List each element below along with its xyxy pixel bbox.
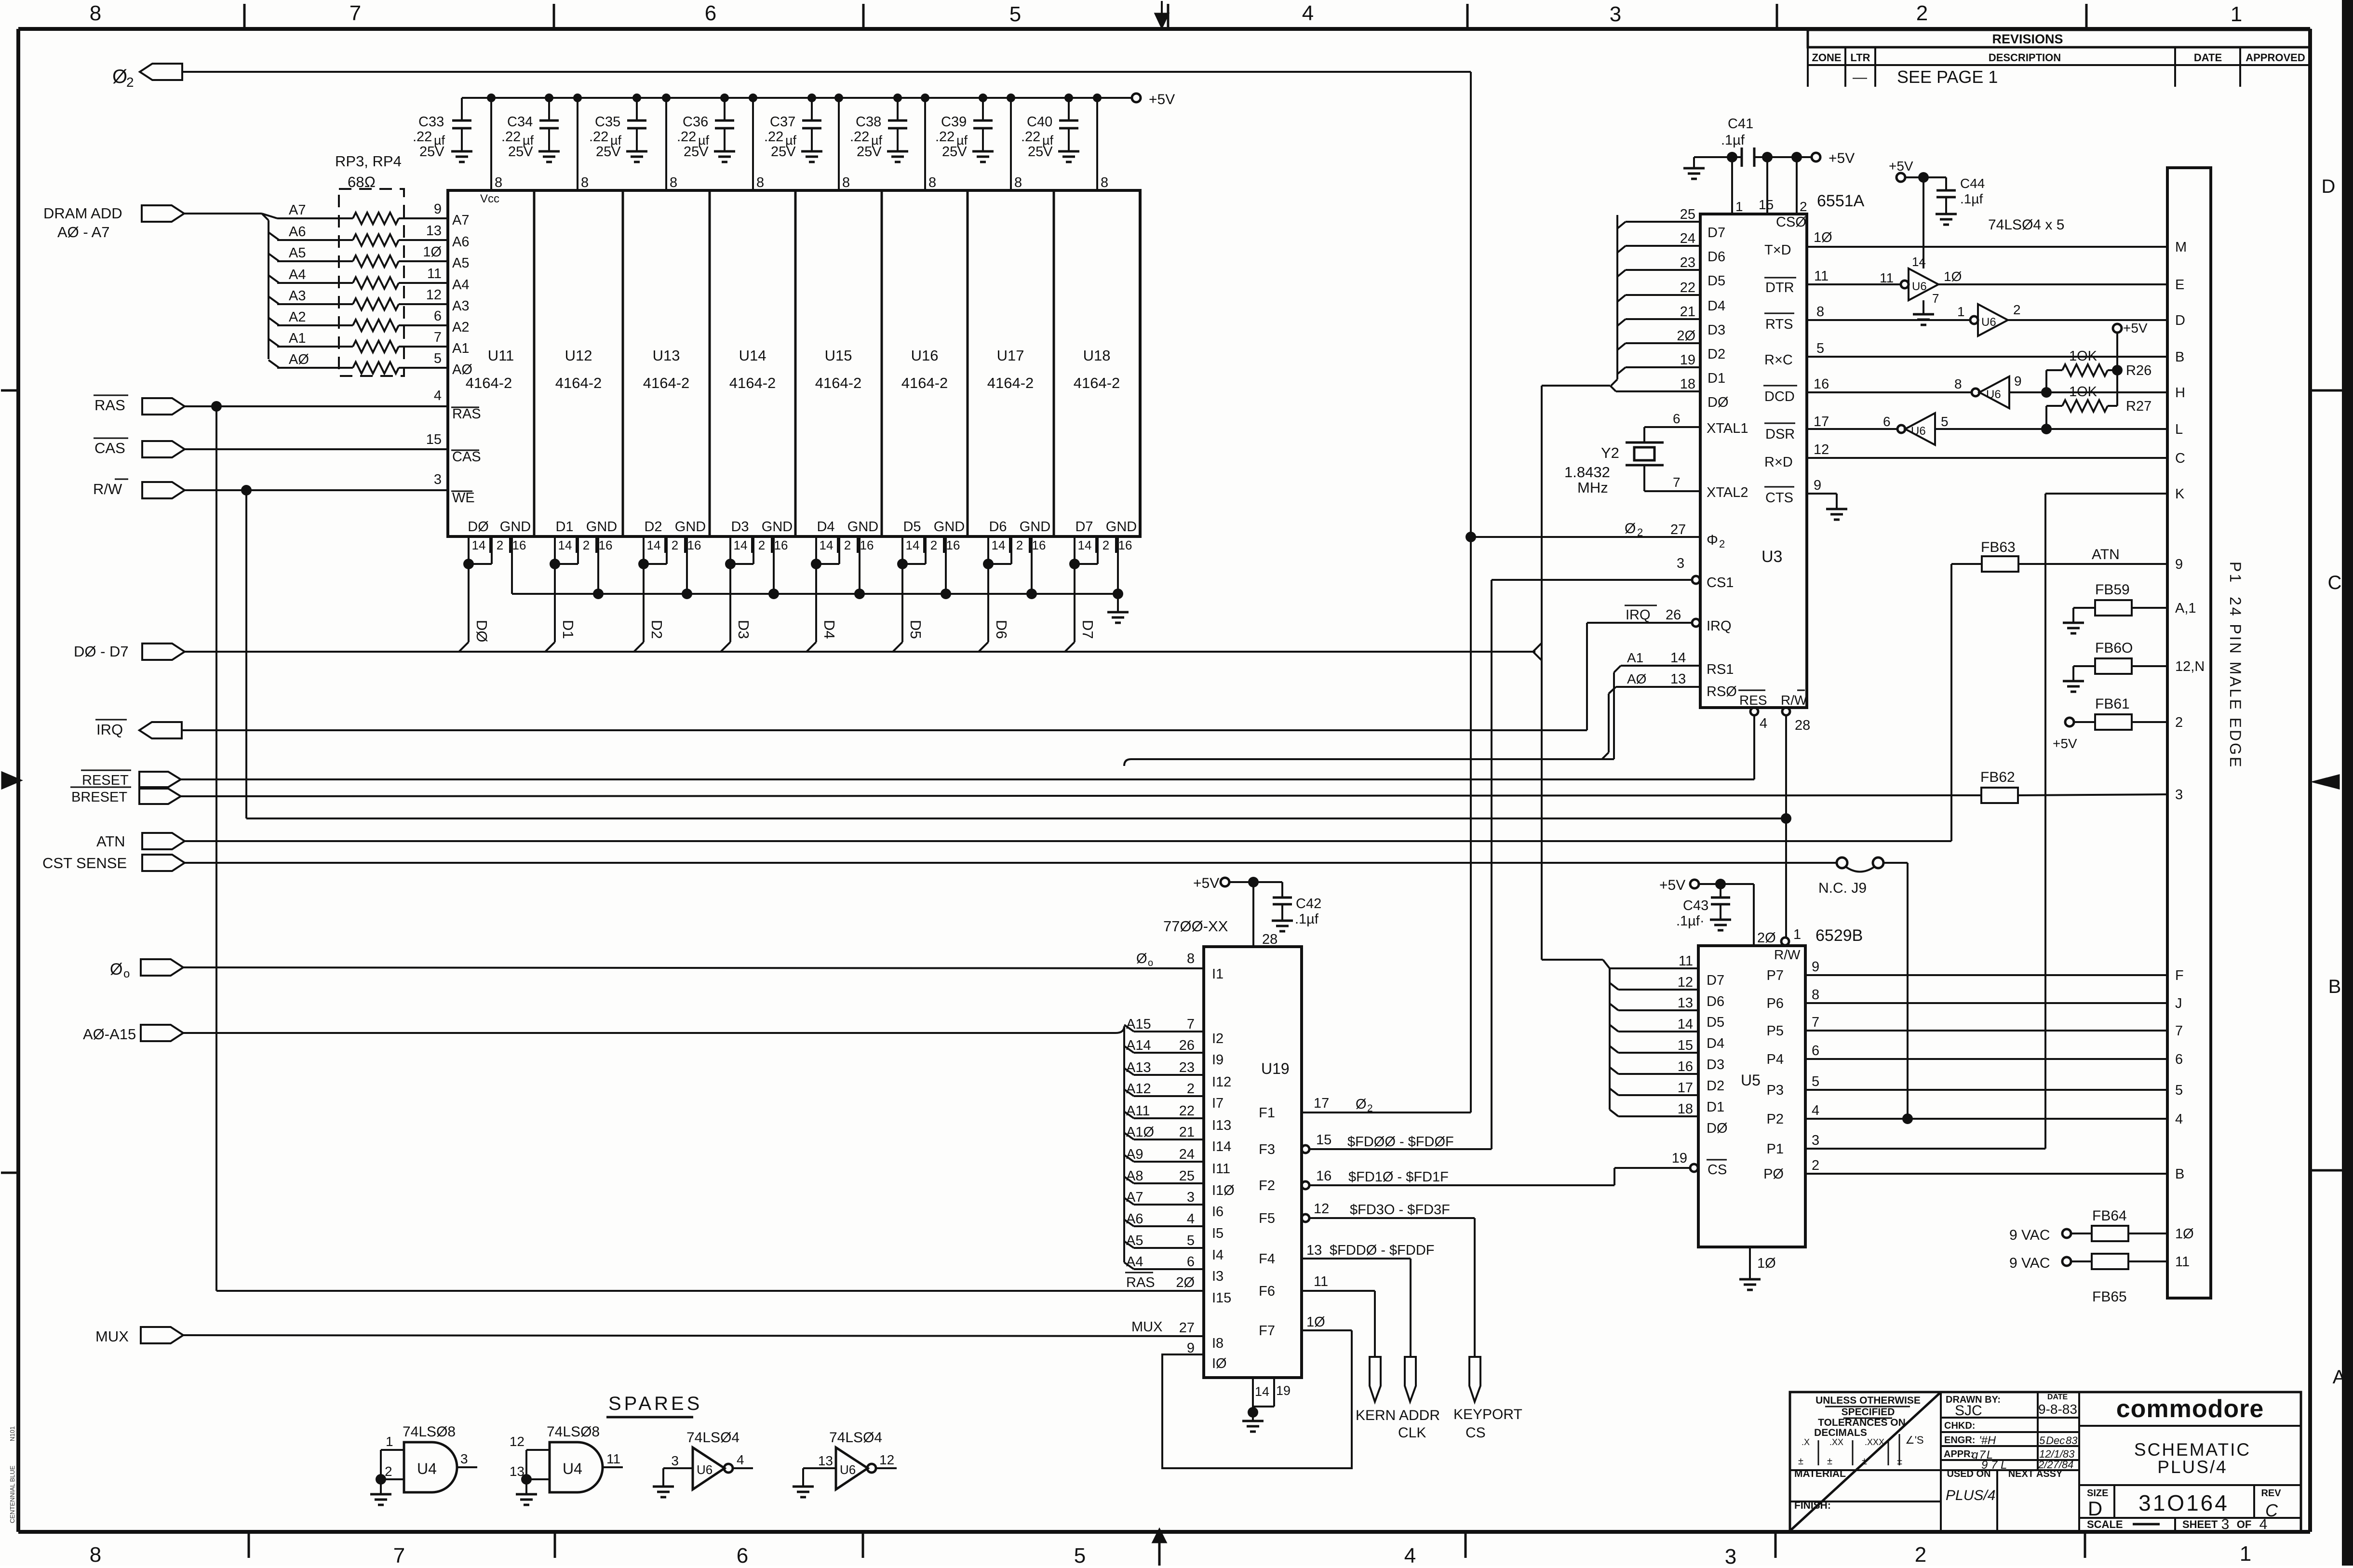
svg-text:C44: C44 [1960, 176, 1985, 191]
U5 pin 10 ground [1750, 1247, 1776, 1278]
resistor pack RP3,RP4 label [335, 153, 402, 190]
svg-text:P7: P7 [1767, 968, 1784, 983]
zone tick marks right border [2310, 390, 2342, 1170]
svg-text:Ø: Ø [1356, 1097, 1367, 1112]
U5 port pin P0 [1763, 1158, 2167, 1182]
svg-text:.X: .X [1802, 1437, 1810, 1447]
ferrite bead FB64 to edge 10 [2092, 1208, 2167, 1241]
svg-text:15: 15 [1316, 1132, 1331, 1148]
svg-text:2: 2 [1916, 1, 1928, 25]
inverter U6 DCD 9-8 [1954, 374, 2022, 408]
svg-text:8: 8 [1816, 304, 1824, 320]
svg-text:1: 1 [1735, 199, 1743, 214]
wire data D6 drop to bus [979, 564, 1010, 652]
svg-text:A14: A14 [1126, 1038, 1151, 1053]
U3 TxD pin 10 wire to edge M [1764, 230, 2167, 258]
connector P1 24 pin male edge outline [2167, 168, 2211, 1298]
svg-text:I13: I13 [1212, 1118, 1231, 1133]
svg-text:.22: .22 [1021, 129, 1040, 145]
chip divider U12/U13 [622, 190, 624, 536]
DRAM U13 Vcc pin 8 stub [662, 94, 677, 190]
svg-text:AØ: AØ [452, 362, 472, 377]
net flag CAS input [94, 438, 185, 457]
svg-text:27: 27 [1179, 1320, 1195, 1336]
svg-text:2Ø: 2Ø [1176, 1275, 1195, 1290]
inverter U6 74LS04 spare 1 [663, 1430, 753, 1489]
svg-text:1Ø: 1Ø [1944, 269, 1962, 284]
svg-text:U6: U6 [697, 1462, 713, 1477]
svg-text:D1: D1 [1708, 371, 1725, 386]
svg-text:D3: D3 [735, 620, 752, 639]
svg-text:3: 3 [1610, 2, 1621, 26]
svg-text:MATERIAL: MATERIAL [1794, 1468, 1846, 1479]
svg-text:+5V: +5V [1829, 150, 1855, 166]
svg-text:AØ-A15: AØ-A15 [83, 1026, 136, 1043]
svg-text:CAS: CAS [94, 440, 125, 456]
svg-text:C: C [2175, 451, 2185, 466]
U5 port pin P2 [1767, 1103, 2167, 1127]
svg-text:D1: D1 [555, 519, 573, 535]
title SCHEMATIC PLUS/4 [2134, 1440, 2251, 1477]
svg-text:1Ø: 1Ø [1757, 1256, 1776, 1271]
svg-text:3: 3 [1725, 1545, 1736, 1566]
svg-text:±: ± [1897, 1456, 1902, 1467]
svg-text:D2: D2 [644, 519, 662, 535]
svg-text:J: J [2175, 996, 2182, 1011]
svg-text:RSØ: RSØ [1707, 684, 1737, 699]
svg-text:74LSØ8: 74LSØ8 [403, 1424, 456, 1440]
svg-text:D6: D6 [993, 620, 1010, 639]
DRAM U14 ground pin 16 stub [768, 536, 779, 599]
svg-text:.XX: .XX [1829, 1437, 1843, 1447]
capacitor C41 .1uf and +5V rail above U3 [1683, 116, 1812, 179]
svg-text:D5: D5 [907, 620, 924, 639]
svg-text:14: 14 [906, 538, 920, 552]
U19 input pin I11 A9 [1124, 1147, 1230, 1177]
svg-text:9: 9 [1812, 959, 1819, 975]
DRAM U16 ground pin 16 stub [941, 536, 951, 599]
svg-text:R27: R27 [2126, 399, 2151, 414]
svg-text:I12: I12 [1212, 1074, 1231, 1090]
capacitor C39 .22uf 25V [935, 94, 994, 162]
svg-text:U19: U19 [1261, 1060, 1290, 1077]
svg-text:A6: A6 [1126, 1211, 1143, 1227]
svg-text:6: 6 [1187, 1254, 1195, 1270]
connector P1 pin 9 [2175, 557, 2183, 572]
svg-text:E: E [2175, 277, 2184, 293]
svg-text:U16: U16 [911, 347, 939, 364]
svg-text:4: 4 [1302, 1, 1314, 25]
ferrite bead FB63 / ATN to edge 9 [1951, 539, 2167, 572]
svg-text:15: 15 [1759, 197, 1774, 212]
svg-text:U12: U12 [565, 347, 592, 364]
svg-text:C40: C40 [1027, 114, 1052, 130]
svg-text:25V: 25V [771, 144, 796, 160]
svg-text:28: 28 [1795, 718, 1810, 733]
U19 input pin I2 A15 [1124, 1017, 1224, 1046]
svg-text:+5V: +5V [1149, 92, 1175, 107]
svg-text:CTS: CTS [1765, 490, 1793, 506]
fold marker arrow right border [2313, 775, 2339, 789]
chip divider U14/U15 [794, 190, 797, 536]
svg-text:7: 7 [1187, 1017, 1195, 1032]
svg-text:A11: A11 [1126, 1103, 1150, 1119]
svg-text:12: 12 [510, 1434, 524, 1449]
svg-text:16: 16 [860, 538, 874, 552]
svg-text:U6: U6 [1911, 425, 1926, 438]
DRAM U17 labels [987, 347, 1034, 391]
DRAM U12 Vcc pin 8 stub [573, 94, 589, 190]
svg-text:14: 14 [647, 538, 661, 552]
svg-text:IØ: IØ [1212, 1356, 1227, 1371]
svg-text:2: 2 [385, 1464, 392, 1479]
svg-text:4164-2: 4164-2 [643, 375, 690, 391]
connector P1 pin A,1 [2175, 601, 2196, 616]
svg-text:U11: U11 [488, 347, 514, 364]
AND gate U4 74LS08 spare 1 [376, 1424, 477, 1493]
svg-text:KERN: KERN [1356, 1407, 1396, 1423]
connector P1 label [2227, 562, 2244, 769]
svg-text:±: ± [1827, 1456, 1832, 1467]
terminal 9 VAC upper [2009, 1227, 2091, 1243]
svg-text:6: 6 [737, 1544, 748, 1566]
capacitor C40 .22uf 25V [1021, 94, 1079, 162]
svg-text:D3: D3 [1708, 322, 1725, 338]
svg-text:D7: D7 [1075, 519, 1093, 535]
wire J9 to U5 P2 [1882, 863, 1913, 1124]
U19 input pin I4 A5 [1124, 1233, 1224, 1263]
svg-text:2: 2 [1016, 538, 1023, 552]
svg-text:17: 17 [1678, 1080, 1693, 1096]
svg-text:.1µf: .1µf [1295, 911, 1319, 927]
ground CTS [1826, 509, 1847, 520]
svg-text:22: 22 [1179, 1103, 1195, 1119]
U5 port pin P5 [1767, 1015, 2167, 1039]
svg-text:A5: A5 [1126, 1233, 1143, 1248]
svg-text:A1: A1 [1627, 650, 1643, 665]
wire U6 pin14 to +5V [1918, 172, 1929, 268]
svg-text:A2: A2 [452, 320, 469, 335]
svg-text:MUX: MUX [1131, 1319, 1162, 1335]
U19 input pin I10 A8 [1124, 1168, 1235, 1198]
DRAM U11 WE pin [426, 432, 475, 506]
svg-text:RESET: RESET [82, 773, 129, 788]
svg-text:D4: D4 [1707, 1036, 1724, 1051]
DRAM U16 data pins 14/2 tie [897, 536, 926, 569]
resistor R27 10K pullup [2046, 384, 2151, 429]
connector P1 pin B [2175, 349, 2184, 365]
svg-text:13: 13 [1670, 671, 1686, 687]
wire R/W to DRAM WE [185, 485, 448, 496]
svg-text:6529B: 6529B [1815, 926, 1863, 945]
net flag MUX input [95, 1327, 183, 1345]
ground U5 [1739, 1279, 1761, 1290]
U19 output F5 $FD30-$FD3F [1259, 1201, 1475, 1226]
svg-text:2Ø: 2Ø [1757, 930, 1776, 946]
svg-text:4164-2: 4164-2 [1074, 375, 1120, 391]
svg-text:SCALE: SCALE [2087, 1518, 2123, 1530]
svg-text:23: 23 [1179, 1060, 1195, 1075]
DRAM U11 labels [466, 192, 514, 391]
svg-text:R/W: R/W [1781, 693, 1807, 708]
U3 DSR pin 17 [1764, 414, 1897, 442]
svg-text:D2: D2 [1707, 1078, 1724, 1094]
DRAM U15 ground pin 16 stub [854, 536, 865, 599]
wire BRESET to FB62 [181, 795, 1982, 796]
svg-text:D6: D6 [1707, 994, 1724, 1009]
connector P1 pin L [2175, 422, 2183, 437]
connector P1 pin 7 [2175, 1023, 2183, 1039]
connector P1 pin J [2175, 996, 2182, 1011]
svg-text:4164-2: 4164-2 [987, 375, 1034, 391]
svg-text:AØ: AØ [1627, 671, 1646, 686]
svg-text:D3: D3 [1707, 1057, 1724, 1072]
svg-text:1: 1 [2231, 2, 2242, 26]
svg-text:DSR: DSR [1765, 427, 1795, 442]
wire DRAM ADD bus [184, 213, 262, 214]
svg-text:4: 4 [2259, 1516, 2268, 1532]
flag KEYPORT CS output [1453, 1357, 1522, 1441]
DRAM U13 ground pin 16 stub [682, 536, 692, 599]
zone numbers bottom border [90, 1542, 2251, 1568]
svg-text:DECIMALS: DECIMALS [1814, 1427, 1867, 1438]
svg-text:ENGR:: ENGR: [1944, 1435, 1975, 1446]
svg-text:4164-2: 4164-2 [901, 375, 948, 391]
inverter U6 DTR 11-10 [1880, 255, 1962, 306]
svg-text:IRQ: IRQ [1626, 607, 1651, 623]
U5 data pin D0 [1610, 1101, 1728, 1136]
svg-text:R/W: R/W [93, 481, 122, 497]
svg-text:8: 8 [1014, 175, 1022, 190]
svg-text:15: 15 [426, 432, 442, 447]
svg-text:5: 5 [434, 351, 442, 366]
wire R/W vertical to U5 pin 1 [1785, 715, 1787, 937]
wire RESET to U3 RES [181, 715, 1754, 779]
svg-text:2: 2 [844, 538, 851, 552]
U5 port pin P4 [1767, 1043, 2167, 1067]
title block material finish [1794, 1468, 1846, 1511]
svg-text:3: 3 [1812, 1133, 1819, 1148]
svg-text:A5: A5 [289, 245, 306, 261]
DRAM U15 labels [815, 347, 862, 391]
svg-text:4164-2: 4164-2 [555, 375, 602, 391]
svg-text:I4: I4 [1212, 1247, 1224, 1263]
svg-text:D5: D5 [903, 519, 921, 535]
title block diagonal [1790, 1393, 1940, 1531]
svg-text:B: B [2175, 1166, 2184, 1182]
svg-text:8: 8 [495, 175, 502, 190]
U19 output F1 PHI2 [1259, 1096, 1471, 1121]
svg-text:B: B [2328, 976, 2341, 997]
svg-text:GND: GND [847, 519, 878, 535]
svg-text:16: 16 [687, 538, 701, 552]
svg-text:25: 25 [1179, 1168, 1195, 1184]
data bus fork to U3/U5 riser [1533, 386, 1542, 960]
U5 pin 1 R/W [1774, 927, 1803, 962]
net flag DRAM ADD A0-A7 [43, 205, 184, 241]
U3 data pin D3 [1617, 304, 1725, 338]
ferrite bead FB61 to edge 2 [2053, 696, 2167, 751]
svg-text:11: 11 [1679, 953, 1693, 969]
DRAM U11 bottom pin labels [468, 519, 531, 553]
svg-text:U3: U3 [1761, 548, 1782, 566]
svg-text:XTAL1: XTAL1 [1707, 421, 1748, 436]
svg-text:I2: I2 [1212, 1031, 1224, 1046]
svg-text:8: 8 [1187, 951, 1195, 966]
DRAM U12 bottom pin labels [555, 519, 617, 553]
connector P1 pin F [2175, 968, 2184, 983]
U19 input pin I15 RAS [1125, 1273, 1231, 1306]
svg-text:U17: U17 [997, 347, 1024, 364]
svg-text:25V: 25V [419, 144, 444, 160]
svg-text:SPARES: SPARES [608, 1393, 702, 1414]
chip divider U13/U14 [709, 190, 711, 536]
wire A0 stair from address sub-bus [1602, 687, 1616, 759]
svg-text:C43: C43 [1683, 898, 1708, 913]
svg-text:P5: P5 [1767, 1023, 1784, 1039]
U19 input pin I9 A14 [1124, 1038, 1224, 1068]
svg-text:RAS: RAS [452, 406, 481, 422]
svg-text:SCHEMATIC: SCHEMATIC [2134, 1440, 2251, 1460]
svg-text:FB62: FB62 [1980, 769, 2015, 785]
svg-text:18: 18 [1678, 1101, 1693, 1117]
chip divider U11/U12 [533, 190, 536, 536]
svg-text:12: 12 [1814, 442, 1829, 457]
svg-text:22: 22 [1680, 280, 1695, 295]
svg-text:$FDDØ - $FDDF: $FDDØ - $FDDF [1330, 1243, 1435, 1258]
svg-text:11: 11 [606, 1451, 620, 1466]
U5 CS pin 19 [1614, 1151, 1727, 1185]
ground symbol DRAM bus [1107, 612, 1129, 623]
svg-text:D7: D7 [1708, 225, 1725, 241]
U3 power pins 1 15 2 [1732, 157, 1807, 214]
U5 data pin D2 [1610, 1059, 1724, 1094]
svg-text:R×C: R×C [1764, 352, 1793, 368]
svg-text:1Ø: 1Ø [1306, 1314, 1325, 1330]
svg-text:1: 1 [1957, 304, 1965, 319]
AND gate U4 74LS08 spare 2 [510, 1424, 623, 1493]
DRAM address fan-out stair [262, 214, 269, 359]
connector P1 pin 10 [2175, 1226, 2194, 1242]
svg-text:.1µf: .1µf [1960, 191, 1983, 206]
svg-text:GND: GND [934, 519, 965, 535]
svg-text:RAS: RAS [94, 397, 125, 414]
svg-text:24: 24 [1680, 231, 1695, 246]
U3 DTR pin 11 [1764, 268, 1901, 295]
svg-text:D4: D4 [821, 620, 838, 639]
svg-text:+5V: +5V [2053, 736, 2077, 751]
svg-text:2: 2 [1103, 538, 1109, 552]
svg-text:2: 2 [1187, 1081, 1195, 1097]
net flag IRQ output [95, 720, 182, 738]
connector P1 pin 2 [2175, 715, 2183, 730]
resistor pack dashed outline [339, 189, 404, 376]
svg-text:4: 4 [1187, 1211, 1195, 1227]
resistor RP3/RP4 element A3 [269, 287, 448, 310]
svg-text:8: 8 [90, 1543, 101, 1566]
svg-text:I7: I7 [1212, 1096, 1224, 1111]
wire U19 pin 28 power [1253, 882, 1277, 947]
U19 labels [1163, 918, 1290, 1077]
zone tick marks left border [1, 390, 18, 1173]
svg-text:R26: R26 [2126, 363, 2151, 378]
svg-text:L: L [2175, 422, 2183, 437]
U19 input pin I14 A10 [1124, 1125, 1231, 1154]
svg-text:1OK: 1OK [2069, 384, 2098, 400]
svg-text:8: 8 [581, 175, 589, 190]
U5 port pin P6 [1767, 987, 2167, 1011]
DRAM U16 labels [901, 347, 948, 391]
svg-text:7: 7 [1812, 1015, 1819, 1030]
U19 ground pins 14 19 [1248, 1378, 1291, 1420]
DRAM U17 ground pin 16 stub [1026, 536, 1037, 599]
svg-text:PLUS/4: PLUS/4 [2157, 1457, 2228, 1477]
svg-text:BRESET: BRESET [71, 790, 127, 805]
svg-text:A6: A6 [289, 224, 306, 240]
flag ADDR CLK output [1398, 1357, 1440, 1441]
U19 input pin I6 A7 [1124, 1190, 1224, 1220]
svg-text:U15: U15 [825, 347, 852, 364]
crystal Y2 1.8432 MHz [1564, 427, 1700, 496]
svg-text:1OK: 1OK [2069, 348, 2098, 364]
svg-text:D2: D2 [648, 620, 665, 639]
svg-text:7: 7 [1932, 291, 1939, 306]
wire D0-D7 data bus [185, 651, 1535, 653]
U3 labels [1761, 192, 1865, 566]
svg-text:D7: D7 [1079, 620, 1096, 639]
svg-text:9: 9 [1814, 478, 1821, 493]
wire CAS to DRAM [185, 448, 448, 450]
net flag RAS input [94, 395, 185, 415]
svg-text:C39: C39 [941, 114, 967, 130]
svg-text:GND: GND [1020, 519, 1050, 535]
svg-text:DATE: DATE [2047, 1393, 2068, 1401]
svg-text:5: 5 [1009, 2, 1021, 26]
svg-text:6: 6 [1883, 414, 1891, 429]
svg-text:I1Ø: I1Ø [1212, 1183, 1235, 1198]
wire PHI0 to U19 I1 [183, 967, 1204, 968]
svg-text:SHEET: SHEET [2182, 1518, 2218, 1530]
svg-text:RP3, RP4: RP3, RP4 [335, 153, 402, 170]
svg-text:C35: C35 [595, 114, 620, 130]
U5 data pin D3 [1610, 1038, 1724, 1072]
wire MUX to U19 I8 [183, 1335, 1204, 1336]
svg-text:1: 1 [1793, 927, 1801, 942]
svg-text:31O164: 31O164 [2138, 1490, 2229, 1515]
svg-text:CS: CS [1466, 1425, 1486, 1441]
svg-text:F5: F5 [1259, 1211, 1275, 1226]
IC U19 7700-XX PLA outline [1204, 947, 1302, 1378]
svg-text:D5: D5 [1708, 273, 1725, 289]
connector P1 pin B [2175, 1166, 2184, 1182]
svg-text:I8: I8 [1212, 1336, 1224, 1351]
svg-text:A3: A3 [452, 298, 469, 314]
svg-text:I3: I3 [1212, 1269, 1224, 1284]
capacitor C42 .1uf [1272, 882, 1321, 931]
wire F5 to KEYPORT CS flag [1474, 1218, 1476, 1357]
svg-text:I1: I1 [1212, 966, 1224, 982]
svg-text:12: 12 [879, 1452, 894, 1467]
U3 RxD pin 12 wire to edge C [1764, 442, 2167, 470]
DRAM U18 bottom pin labels [1075, 519, 1137, 553]
svg-text:+5V: +5V [1659, 877, 1685, 893]
U5 labels [1741, 926, 1863, 1089]
svg-text:12,N: 12,N [2175, 659, 2205, 674]
svg-text:14: 14 [472, 538, 486, 552]
svg-text:A7: A7 [452, 213, 469, 228]
svg-text:SEE PAGE 1: SEE PAGE 1 [1897, 67, 1998, 87]
svg-text:2: 2 [758, 538, 765, 552]
